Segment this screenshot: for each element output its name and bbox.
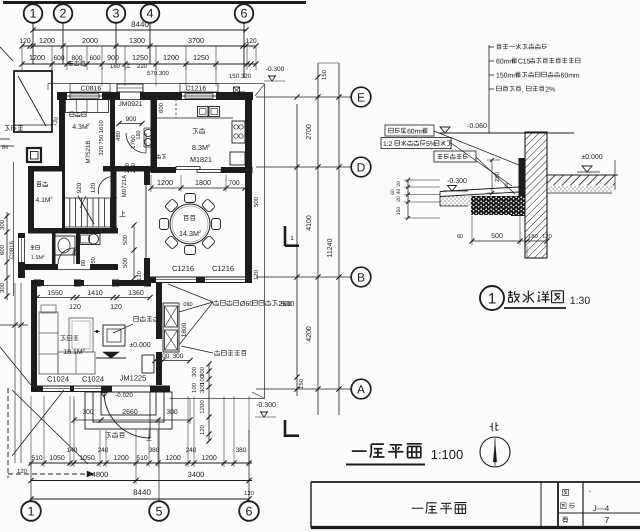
- svg-text:1200: 1200: [29, 53, 45, 62]
- svg-text:1200: 1200: [199, 400, 206, 414]
- svg-text:,: ,: [522, 87, 524, 94]
- svg-text:750: 750: [90, 257, 97, 267]
- svg-text:320 750 1610: 320 750 1610: [98, 120, 105, 155]
- svg-text:C1216: C1216: [186, 86, 207, 93]
- svg-text:500: 500: [122, 257, 129, 268]
- svg-text:±0.000: ±0.000: [581, 154, 602, 161]
- svg-text:1:2: 1:2: [383, 141, 393, 148]
- svg-text:3: 3: [113, 7, 120, 21]
- svg-text:600: 600: [158, 102, 165, 113]
- svg-text:-0.020: -0.020: [115, 392, 133, 399]
- svg-text:100: 100: [191, 382, 198, 393]
- svg-text:-0.060: -0.060: [467, 123, 487, 130]
- svg-text:150: 150: [298, 378, 305, 389]
- svg-text:1: 1: [28, 505, 35, 519]
- svg-text:6: 6: [241, 7, 248, 21]
- svg-text:1: 1: [30, 7, 37, 21]
- svg-text:M1821: M1821: [190, 155, 212, 164]
- svg-text:1050: 1050: [79, 455, 95, 462]
- svg-text:2: 2: [60, 7, 67, 21]
- svg-text:E: E: [357, 91, 365, 105]
- svg-text:4.1M: 4.1M: [35, 197, 50, 204]
- svg-text:510: 510: [31, 455, 43, 462]
- svg-text:900: 900: [126, 116, 137, 123]
- svg-text:1200: 1200: [157, 178, 173, 187]
- svg-text:500: 500: [491, 233, 503, 240]
- svg-text:60: 60: [457, 234, 463, 240]
- svg-text:1300: 1300: [129, 36, 145, 45]
- svg-text:1200: 1200: [163, 53, 179, 62]
- svg-text:1360: 1360: [128, 290, 144, 297]
- svg-text:7: 7: [605, 515, 610, 525]
- svg-text:120: 120: [110, 304, 122, 311]
- svg-text:140: 140: [67, 447, 78, 454]
- svg-text:D: D: [357, 161, 366, 175]
- svg-text:Ø60: Ø60: [240, 300, 254, 308]
- svg-text:C15: C15: [518, 59, 531, 66]
- svg-text:180: 180: [528, 233, 538, 240]
- svg-text:2%: 2%: [545, 87, 555, 94]
- svg-text:1250: 1250: [132, 53, 148, 62]
- svg-text:4200: 4200: [306, 326, 313, 342]
- svg-text:480: 480: [115, 130, 122, 141]
- svg-text:600: 600: [53, 55, 64, 62]
- svg-text:-0.300: -0.300: [256, 402, 276, 409]
- svg-text:1800: 1800: [195, 178, 211, 187]
- svg-text:2: 2: [43, 254, 45, 258]
- svg-text:J—4: J—4: [593, 504, 610, 513]
- svg-text:C1216: C1216: [212, 264, 234, 273]
- svg-text:4100: 4100: [306, 215, 313, 231]
- svg-text:300: 300: [173, 353, 184, 360]
- svg-text:180: 180: [110, 63, 121, 70]
- svg-text:510: 510: [136, 455, 148, 462]
- svg-text:JM1225: JM1225: [120, 374, 147, 383]
- svg-text:120: 120: [542, 233, 552, 240]
- svg-text:300: 300: [0, 282, 6, 293]
- svg-text:300: 300: [0, 219, 6, 230]
- svg-text:80: 80: [80, 260, 87, 266]
- svg-text:11240: 11240: [327, 238, 334, 257]
- svg-text:60mm: 60mm: [561, 73, 580, 80]
- svg-text:A: A: [357, 383, 365, 397]
- svg-text:M7521B: M7521B: [85, 140, 92, 163]
- svg-text:18.1M: 18.1M: [63, 349, 83, 356]
- svg-text:380: 380: [236, 447, 247, 454]
- svg-text:1200: 1200: [113, 455, 129, 462]
- svg-text:150: 150: [321, 69, 328, 80]
- svg-text:250: 250: [494, 171, 501, 182]
- svg-text:±0.000: ±0.000: [129, 342, 150, 349]
- svg-text:-0.300: -0.300: [447, 178, 467, 185]
- svg-text:180: 180: [136, 130, 142, 139]
- svg-text:1050: 1050: [49, 455, 65, 462]
- svg-text:1410: 1410: [87, 290, 103, 297]
- svg-text:3700: 3700: [188, 36, 204, 45]
- svg-text:2700: 2700: [306, 124, 313, 140]
- svg-text:2660: 2660: [122, 409, 138, 416]
- svg-text:C0816: C0816: [81, 86, 102, 93]
- svg-text:300: 300: [82, 409, 94, 416]
- svg-text:4800: 4800: [92, 470, 109, 479]
- svg-text:84: 84: [2, 145, 8, 151]
- svg-text:1250: 1250: [193, 53, 209, 62]
- svg-text:500: 500: [253, 196, 260, 207]
- svg-text:B: B: [357, 271, 365, 285]
- svg-text:3400: 3400: [188, 470, 205, 479]
- svg-text:4.3M: 4.3M: [72, 124, 88, 131]
- svg-text:600: 600: [89, 55, 100, 62]
- svg-text:C0816: C0816: [9, 241, 16, 259]
- svg-text:240: 240: [186, 447, 197, 454]
- svg-text:120: 120: [90, 182, 97, 193]
- svg-text:150: 150: [396, 207, 402, 216]
- svg-text:20: 20: [396, 181, 402, 187]
- svg-text:6: 6: [246, 505, 253, 519]
- svg-text:570.300: 570.300: [147, 70, 169, 77]
- svg-text:M0721A: M0721A: [121, 175, 128, 197]
- svg-text:120: 120: [199, 424, 206, 435]
- svg-text:1.5M: 1.5M: [31, 255, 44, 261]
- svg-text:1200: 1200: [39, 36, 55, 45]
- svg-text:4: 4: [147, 7, 154, 21]
- svg-text:300: 300: [199, 382, 206, 393]
- svg-text:1: 1: [488, 291, 496, 308]
- svg-text:-0.300: -0.300: [266, 66, 285, 73]
- svg-text:C1024: C1024: [82, 375, 104, 384]
- svg-text:240: 240: [130, 162, 137, 173]
- svg-text:2000: 2000: [82, 36, 98, 45]
- svg-text:920: 920: [76, 182, 83, 193]
- svg-text:C1216: C1216: [172, 264, 194, 273]
- svg-text:45: 45: [504, 183, 510, 189]
- svg-text:1200: 1200: [201, 455, 217, 462]
- svg-text:120: 120: [136, 271, 143, 281]
- svg-text:120: 120: [17, 468, 28, 475]
- svg-text:JM0921: JM0921: [118, 101, 142, 108]
- svg-text:380: 380: [149, 447, 160, 454]
- svg-text:8.3M: 8.3M: [192, 143, 208, 152]
- svg-text:8440: 8440: [131, 20, 149, 29]
- svg-text:1200: 1200: [165, 455, 181, 462]
- svg-text:700: 700: [228, 180, 240, 187]
- svg-text:5: 5: [156, 505, 163, 519]
- svg-text:120: 120: [19, 38, 31, 45]
- svg-text:150mm: 150mm: [496, 73, 519, 80]
- svg-text:240: 240: [124, 162, 131, 173]
- svg-text:500: 500: [122, 234, 129, 245]
- svg-text:2500: 2500: [278, 300, 294, 308]
- svg-text:600: 600: [0, 244, 6, 255]
- svg-text:200: 200: [159, 353, 170, 360]
- svg-text:900: 900: [107, 55, 119, 62]
- svg-text:1:30: 1:30: [570, 295, 591, 307]
- svg-text:300: 300: [191, 366, 198, 377]
- svg-text:120: 120: [245, 38, 257, 45]
- svg-text:150.320: 150.320: [229, 73, 252, 80]
- svg-text:220: 220: [137, 63, 148, 70]
- svg-text:8440: 8440: [133, 488, 151, 497]
- svg-text:080: 080: [183, 302, 192, 308]
- svg-text:120: 120: [253, 269, 260, 280]
- svg-text:1:100: 1:100: [431, 447, 464, 462]
- svg-text:20: 20: [396, 196, 402, 202]
- svg-text:C1024: C1024: [47, 375, 69, 384]
- svg-text:240: 240: [98, 447, 109, 454]
- svg-text:120: 120: [69, 304, 81, 311]
- svg-text:60: 60: [390, 189, 396, 195]
- svg-text:40: 40: [396, 189, 402, 195]
- svg-text:1550: 1550: [47, 290, 63, 297]
- svg-text:14.3M: 14.3M: [179, 229, 199, 238]
- svg-text:300: 300: [166, 409, 178, 416]
